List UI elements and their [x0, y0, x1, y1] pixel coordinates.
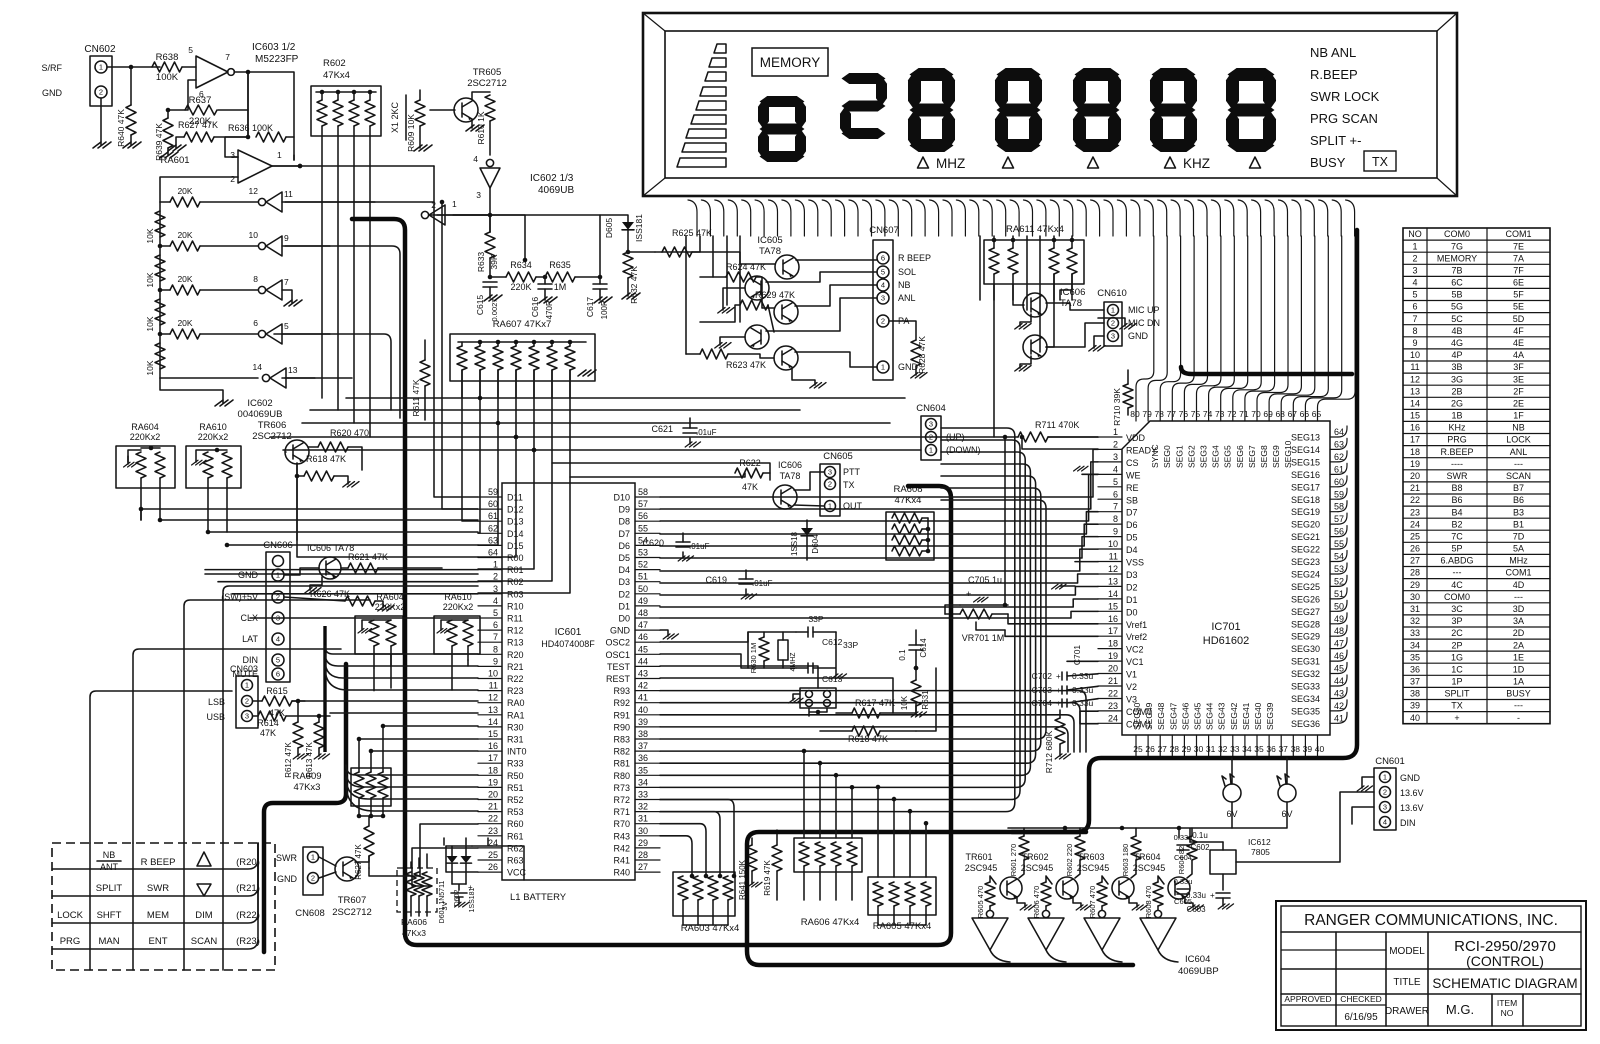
svg-text:R01: R01 — [507, 565, 524, 575]
svg-text:R BEEP: R BEEP — [141, 857, 176, 868]
svg-text:SEG9: SEG9 — [1271, 445, 1281, 468]
7-segment digit 8 a — [910, 68, 954, 81]
svg-text:D7: D7 — [1126, 508, 1138, 518]
wires CN601 to regulator — [1236, 792, 1374, 862]
wire R617 RE loop — [916, 668, 936, 731]
svg-text:R615: R615 — [266, 686, 288, 696]
signal meter bargraph — [714, 44, 726, 53]
svg-text:47: 47 — [638, 620, 648, 630]
svg-text:R629 47K: R629 47K — [755, 290, 795, 300]
svg-text:TR602: TR602 — [1021, 852, 1048, 862]
mid horizontals band 460-480 — [552, 463, 770, 477]
svg-text:DRAWER: DRAWER — [1385, 1006, 1429, 1017]
diode D601 1N5711 — [451, 846, 453, 856]
svg-text:25: 25 — [1133, 744, 1143, 754]
svg-text:RA1: RA1 — [507, 710, 525, 720]
svg-text:2: 2 — [311, 874, 315, 883]
svg-text:SEG3: SEG3 — [1199, 445, 1209, 468]
resistor R632 47K — [623, 252, 633, 278]
svg-text:R72: R72 — [613, 795, 630, 805]
svg-text:22: 22 — [488, 814, 498, 824]
svg-text:80: 80 — [1130, 409, 1140, 419]
svg-text:33P: 33P — [843, 640, 858, 650]
inverter IC602 10-9 — [266, 236, 282, 256]
svg-text:R52: R52 — [507, 795, 524, 805]
svg-text:MODEL: MODEL — [1389, 946, 1425, 957]
svg-text:5E: 5E — [1513, 302, 1524, 312]
svg-text:TEST: TEST — [607, 662, 631, 672]
svg-text:R50: R50 — [507, 771, 524, 781]
svg-text:C614: C614 — [919, 638, 928, 658]
svg-text:50: 50 — [638, 584, 648, 594]
svg-text:7A: 7A — [1513, 253, 1524, 263]
resistor array RA606 47Kx3 bottom-left — [397, 868, 437, 912]
svg-text:12: 12 — [1410, 374, 1420, 384]
wire gnd VSS pin11 — [1075, 561, 1098, 563]
svg-text:2E: 2E — [1513, 398, 1524, 408]
svg-text:36: 36 — [1266, 744, 1276, 754]
svg-text:27: 27 — [638, 862, 648, 872]
svg-text:VSS: VSS — [1126, 558, 1144, 568]
svg-text:20: 20 — [1410, 471, 1420, 481]
svg-text:2: 2 — [1383, 788, 1387, 797]
svg-text:S/RF: S/RF — [41, 63, 62, 73]
wire op-amp2 output — [272, 165, 300, 167]
svg-text:D4: D4 — [618, 565, 630, 575]
svg-text:75: 75 — [1191, 409, 1201, 419]
capacitor C613 33P — [796, 667, 808, 669]
svg-text:3E: 3E — [1513, 374, 1524, 384]
svg-text:37: 37 — [1410, 677, 1420, 687]
wires IC601 D bus to IC701 — [660, 449, 1098, 497]
svg-text:B2: B2 — [1451, 519, 1462, 529]
svg-text:14: 14 — [1410, 398, 1420, 408]
svg-text:R631: R631 — [921, 690, 930, 710]
svg-text:39: 39 — [1303, 744, 1313, 754]
svg-text:2SC945: 2SC945 — [1021, 863, 1054, 873]
svg-text:1: 1 — [493, 560, 498, 570]
svg-text:SEG28: SEG28 — [1291, 619, 1320, 629]
svg-text:7B: 7B — [1451, 265, 1462, 275]
svg-text:100P: 100P — [600, 301, 609, 320]
svg-text:5: 5 — [284, 321, 289, 331]
svg-text:19: 19 — [488, 777, 498, 787]
svg-text:MIC UP: MIC UP — [1128, 305, 1160, 315]
wires RA611 to transistors — [994, 274, 1072, 437]
svg-text:40: 40 — [638, 705, 648, 715]
svg-text:65: 65 — [1312, 409, 1322, 419]
ground TR604 — [1185, 897, 1193, 907]
resistor R633 39K — [485, 232, 495, 258]
svg-text:49: 49 — [1334, 614, 1344, 624]
svg-text:10K: 10K — [145, 360, 155, 375]
svg-text:SEG25: SEG25 — [1291, 582, 1320, 592]
display pin fan wires — [688, 200, 697, 236]
svg-text:SEG16: SEG16 — [1291, 470, 1320, 480]
svg-text:+: + — [1056, 672, 1061, 681]
svg-text:1E: 1E — [1513, 652, 1524, 662]
svg-text:R73: R73 — [613, 783, 630, 793]
svg-text:---: --- — [1514, 459, 1523, 469]
svg-text:+: + — [966, 589, 971, 599]
svg-text:1: 1 — [311, 853, 315, 862]
svg-text:3F: 3F — [1513, 362, 1524, 372]
svg-text:9: 9 — [1412, 338, 1417, 348]
svg-text:R92: R92 — [613, 698, 630, 708]
svg-text:32: 32 — [1218, 744, 1228, 754]
svg-text:2: 2 — [245, 697, 249, 706]
svg-text:11: 11 — [489, 681, 498, 691]
svg-text:(R22): (R22) — [236, 910, 260, 921]
LCD display module outline — [643, 13, 1457, 196]
svg-text:6.ABDG: 6.ABDG — [1440, 556, 1473, 566]
svg-text:62: 62 — [488, 523, 498, 533]
svg-text:0.33u: 0.33u — [1186, 891, 1206, 900]
svg-text:R02: R02 — [507, 577, 524, 587]
svg-text:76: 76 — [1179, 409, 1189, 419]
keypad grid lines — [89, 843, 91, 970]
svg-text:74: 74 — [1203, 409, 1213, 419]
svg-text:TA78: TA78 — [759, 246, 781, 257]
svg-text:RANGER COMMUNICATIONS, INC.: RANGER COMMUNICATIONS, INC. — [1304, 912, 1558, 929]
svg-text:72: 72 — [1227, 409, 1237, 419]
svg-text:SEG24: SEG24 — [1291, 569, 1320, 579]
resistor R639 47K — [167, 110, 169, 118]
svg-text:USB: USB — [206, 712, 225, 722]
svg-text:PRG: PRG — [60, 936, 81, 947]
svg-text:3: 3 — [1113, 452, 1118, 462]
svg-text:MHz: MHz — [1509, 556, 1528, 566]
svg-text:CS: CS — [1126, 458, 1139, 468]
svg-text:R638: R638 — [156, 52, 179, 63]
svg-text:36: 36 — [638, 753, 648, 763]
svg-text:SEG43: SEG43 — [1217, 702, 1227, 730]
svg-text:3D: 3D — [1513, 604, 1525, 614]
svg-text:R51: R51 — [507, 783, 524, 793]
svg-text:13.6V: 13.6V — [1400, 788, 1424, 798]
svg-text:5: 5 — [188, 45, 193, 55]
svg-text:32: 32 — [1410, 616, 1420, 626]
svg-text:+: + — [1454, 713, 1459, 723]
svg-text:Vref1: Vref1 — [1126, 620, 1147, 630]
svg-text:---: --- — [1453, 568, 1462, 578]
svg-text:R634: R634 — [510, 260, 532, 270]
svg-text:CN604: CN604 — [916, 403, 946, 414]
svg-text:4: 4 — [1383, 818, 1387, 827]
svg-text:SEG23: SEG23 — [1291, 557, 1320, 567]
svg-text:----: ---- — [1451, 459, 1463, 469]
svg-text:34: 34 — [1410, 640, 1420, 650]
svg-text:26: 26 — [1410, 544, 1420, 554]
svg-text:11: 11 — [1410, 362, 1419, 372]
svg-text:INT0: INT0 — [507, 747, 527, 757]
svg-text:R31: R31 — [507, 735, 524, 745]
svg-text:3: 3 — [245, 712, 249, 721]
svg-text:LAT: LAT — [242, 634, 258, 644]
svg-text:C604: C604 — [1174, 853, 1192, 862]
svg-text:D6: D6 — [618, 541, 630, 551]
svg-text:33: 33 — [1410, 628, 1420, 638]
svg-text:3C: 3C — [1451, 604, 1463, 614]
svg-text:D604: D604 — [811, 534, 820, 554]
ground near IC601 right GND pin — [660, 630, 668, 636]
MEMORY annunciator — [752, 48, 828, 76]
svg-text:C621: C621 — [651, 424, 673, 434]
wires IC601 R93-R90 to IC701 corner — [660, 691, 1086, 752]
svg-text:R53: R53 — [507, 807, 524, 817]
svg-text:63: 63 — [1334, 439, 1344, 449]
svg-text:31: 31 — [638, 814, 648, 824]
lamp 6V b — [1278, 784, 1296, 802]
svg-text:SEG31: SEG31 — [1291, 657, 1320, 667]
resistor R603 180 — [1131, 836, 1141, 860]
svg-text:4: 4 — [493, 596, 498, 606]
svg-text:20K: 20K — [177, 318, 192, 328]
svg-text:SEG34: SEG34 — [1291, 694, 1320, 704]
svg-text:30: 30 — [1410, 592, 1420, 602]
svg-text:TX: TX — [1372, 155, 1389, 169]
svg-text:37: 37 — [1278, 744, 1288, 754]
svg-text:8: 8 — [493, 644, 498, 654]
capacitor C617 100P — [599, 277, 601, 284]
svg-text:D2: D2 — [618, 589, 630, 599]
resistor R638 100K — [152, 62, 182, 72]
svg-text:28: 28 — [1410, 568, 1420, 578]
svg-text:33P: 33P — [808, 614, 823, 624]
wires COM0 COM1 — [1080, 711, 1098, 724]
svg-text:-: - — [1517, 713, 1520, 723]
wire READY C705 — [1022, 437, 1098, 449]
svg-text:22: 22 — [1108, 688, 1118, 698]
svg-text:13: 13 — [288, 365, 298, 375]
svg-text:VDD: VDD — [1126, 433, 1146, 443]
svg-text:79: 79 — [1142, 409, 1152, 419]
svg-text:SEG50: SEG50 — [1132, 702, 1142, 730]
svg-text:R602: R602 — [323, 58, 346, 69]
svg-text:12: 12 — [488, 693, 498, 703]
inverter IC602 12-11 — [266, 192, 282, 212]
svg-text:IC606: IC606 — [778, 460, 802, 470]
svg-text:GND: GND — [1128, 331, 1149, 341]
svg-text:5A: 5A — [1513, 544, 1524, 554]
svg-text:R635: R635 — [549, 260, 571, 270]
svg-text:SEG1: SEG1 — [1174, 445, 1184, 468]
svg-text:6: 6 — [1412, 302, 1417, 312]
svg-text:3: 3 — [828, 468, 832, 477]
svg-text:6/16/95: 6/16/95 — [1344, 1012, 1378, 1023]
svg-text:2F: 2F — [1513, 386, 1524, 396]
svg-text:R23: R23 — [507, 686, 524, 696]
svg-text:12: 12 — [1108, 564, 1118, 574]
svg-text:LOCK: LOCK — [57, 910, 84, 921]
IC601 right pins — [635, 496, 660, 498]
svg-text:2P: 2P — [1451, 640, 1462, 650]
svg-text:R636 100K: R636 100K — [228, 123, 273, 133]
svg-text:5F: 5F — [1513, 290, 1524, 300]
svg-text:SEG44: SEG44 — [1205, 702, 1215, 730]
svg-text:CN607: CN607 — [869, 225, 899, 236]
svg-text:MIC DN: MIC DN — [1128, 318, 1160, 328]
svg-text:20: 20 — [488, 790, 498, 800]
svg-text:COM0: COM0 — [1444, 592, 1470, 602]
svg-text:62: 62 — [1334, 452, 1344, 462]
svg-text:TR605: TR605 — [473, 67, 502, 78]
svg-text:4: 4 — [1113, 464, 1118, 474]
svg-text:MAN: MAN — [98, 936, 119, 947]
svg-text:10K: 10K — [145, 316, 155, 331]
svg-text:43: 43 — [638, 669, 648, 679]
svg-text:SEG2: SEG2 — [1186, 445, 1196, 468]
svg-text:BUSY: BUSY — [1310, 155, 1346, 170]
inverter IC602 2-1 — [429, 205, 445, 225]
svg-text:R22: R22 — [507, 674, 524, 684]
svg-text:SEG42: SEG42 — [1229, 702, 1239, 730]
svg-text:21: 21 — [1410, 483, 1420, 493]
svg-text:SWR LOCK: SWR LOCK — [1310, 89, 1380, 104]
svg-text:---: --- — [1514, 592, 1523, 602]
svg-text:31: 31 — [1410, 604, 1420, 614]
svg-text:17: 17 — [1108, 626, 1118, 636]
resistor array RA603 47Kx4 — [673, 872, 735, 916]
svg-text:B4: B4 — [1451, 507, 1462, 517]
svg-text:GND: GND — [610, 626, 631, 636]
svg-text:10K: 10K — [145, 272, 155, 287]
svg-text:34: 34 — [1242, 744, 1252, 754]
long horizontals band 566-640 left — [205, 570, 478, 691]
diode D605 ISS181 — [600, 215, 628, 222]
svg-text:7: 7 — [493, 632, 498, 642]
inverter IC604 TR602 — [1042, 910, 1049, 917]
svg-text:IC605: IC605 — [757, 235, 782, 246]
svg-text:15: 15 — [1410, 411, 1420, 421]
svg-text:R93: R93 — [613, 686, 630, 696]
svg-text:3: 3 — [230, 150, 235, 160]
svg-text:64: 64 — [488, 548, 498, 558]
svg-text:SEG0: SEG0 — [1162, 445, 1172, 468]
svg-text:1D: 1D — [1513, 664, 1525, 674]
svg-text:18: 18 — [1410, 447, 1420, 457]
svg-text:41: 41 — [638, 693, 648, 703]
svg-text:42: 42 — [1334, 701, 1344, 711]
svg-text:73: 73 — [1215, 409, 1225, 419]
svg-text:1: 1 — [1412, 241, 1417, 251]
svg-text:B8: B8 — [1451, 483, 1462, 493]
svg-text:C602: C602 — [1190, 843, 1210, 852]
svg-text:R637: R637 — [189, 95, 212, 106]
svg-text:R70: R70 — [613, 819, 630, 829]
svg-text:VC1: VC1 — [1126, 657, 1144, 667]
svg-text:20K: 20K — [177, 274, 192, 284]
svg-text:SPLIT +-: SPLIT +- — [1310, 133, 1361, 148]
transistor Q cn607-1 — [775, 255, 799, 279]
wires OSC TEST REST — [660, 632, 748, 668]
svg-text:LOCK: LOCK — [1506, 435, 1531, 445]
svg-text:IC701: IC701 — [1211, 621, 1240, 633]
svg-text:2C: 2C — [1451, 628, 1463, 638]
svg-text:6C: 6C — [1451, 278, 1463, 288]
svg-text:55: 55 — [638, 523, 648, 533]
svg-text:9: 9 — [493, 656, 498, 666]
svg-text:D5: D5 — [618, 553, 630, 563]
svg-text:GND: GND — [1400, 773, 1421, 783]
thick bus short — [323, 626, 326, 752]
svg-text:23: 23 — [488, 826, 498, 836]
svg-text:SEG21: SEG21 — [1291, 532, 1320, 542]
svg-text:SWR: SWR — [147, 883, 169, 894]
svg-text:R712 680K: R712 680K — [1044, 730, 1054, 773]
feedback resistor R637 220K — [168, 80, 196, 110]
svg-text:4C: 4C — [1451, 580, 1463, 590]
mid horizontals band 398-470 — [270, 398, 1005, 450]
svg-text:20K: 20K — [177, 230, 192, 240]
wires IC601 right pins to RA603 — [660, 836, 692, 876]
svg-text:D5: D5 — [1126, 533, 1138, 543]
inverter IC604 TR603 — [1098, 910, 1105, 917]
svg-text:39: 39 — [638, 717, 648, 727]
svg-text:52: 52 — [1334, 576, 1344, 586]
svg-text:71: 71 — [1239, 409, 1249, 419]
svg-text:2D: 2D — [1513, 628, 1525, 638]
svg-text:49: 49 — [638, 596, 648, 606]
svg-text:SEG14: SEG14 — [1291, 445, 1320, 455]
svg-text:9: 9 — [1113, 527, 1118, 537]
svg-text:SEG15: SEG15 — [1291, 457, 1320, 467]
svg-text:14: 14 — [1108, 589, 1118, 599]
svg-text:3B: 3B — [1451, 362, 1462, 372]
resistor R612 47K vertical — [293, 722, 303, 748]
svg-text:61: 61 — [488, 511, 498, 521]
svg-text:5: 5 — [881, 268, 885, 277]
svg-text:OSC2: OSC2 — [605, 638, 630, 648]
svg-text:R71: R71 — [613, 807, 630, 817]
svg-text:19: 19 — [1108, 651, 1118, 661]
svg-text:1B: 1B — [1451, 411, 1462, 421]
svg-text:57: 57 — [1334, 514, 1344, 524]
svg-text:TITLE: TITLE — [1393, 977, 1421, 988]
svg-text:27: 27 — [1410, 556, 1420, 566]
svg-text:52: 52 — [638, 560, 648, 570]
ground near RA611 right — [1098, 318, 1125, 326]
svg-text:4P: 4P — [1451, 350, 1462, 360]
svg-text:3: 3 — [476, 190, 481, 200]
svg-text:3: 3 — [1412, 265, 1417, 275]
transistor Q cn607-4 — [745, 325, 769, 349]
svg-text:5D: 5D — [1513, 314, 1525, 324]
wire bundle keypad columns up — [90, 691, 232, 843]
svg-text:TA78: TA78 — [780, 471, 801, 481]
svg-text:33: 33 — [638, 790, 648, 800]
resistor R631 10K — [911, 680, 921, 706]
svg-text:VC2: VC2 — [1126, 645, 1144, 655]
svg-text:R603 180: R603 180 — [1121, 844, 1130, 877]
svg-text:RA605 47Kx4: RA605 47Kx4 — [873, 921, 932, 932]
svg-text:IC602 1/3: IC602 1/3 — [530, 173, 574, 184]
svg-text:35: 35 — [1410, 652, 1420, 662]
svg-text:X1 2KC: X1 2KC — [390, 101, 400, 133]
svg-text:1: 1 — [276, 571, 280, 580]
svg-text:MEM: MEM — [147, 910, 169, 921]
svg-text:2: 2 — [493, 572, 498, 582]
resistor R602 220 — [1075, 836, 1085, 860]
inverter IC602 4-3 vertical — [480, 168, 500, 188]
svg-text:10: 10 — [249, 230, 259, 240]
capacitor C616 470P — [544, 277, 546, 284]
svg-text:2SC945: 2SC945 — [1133, 863, 1166, 873]
svg-text:6: 6 — [276, 670, 280, 679]
svg-text:MEMORY: MEMORY — [1437, 253, 1477, 263]
wires to IC601 lower-left pins — [369, 824, 478, 876]
svg-text:14: 14 — [253, 362, 263, 372]
